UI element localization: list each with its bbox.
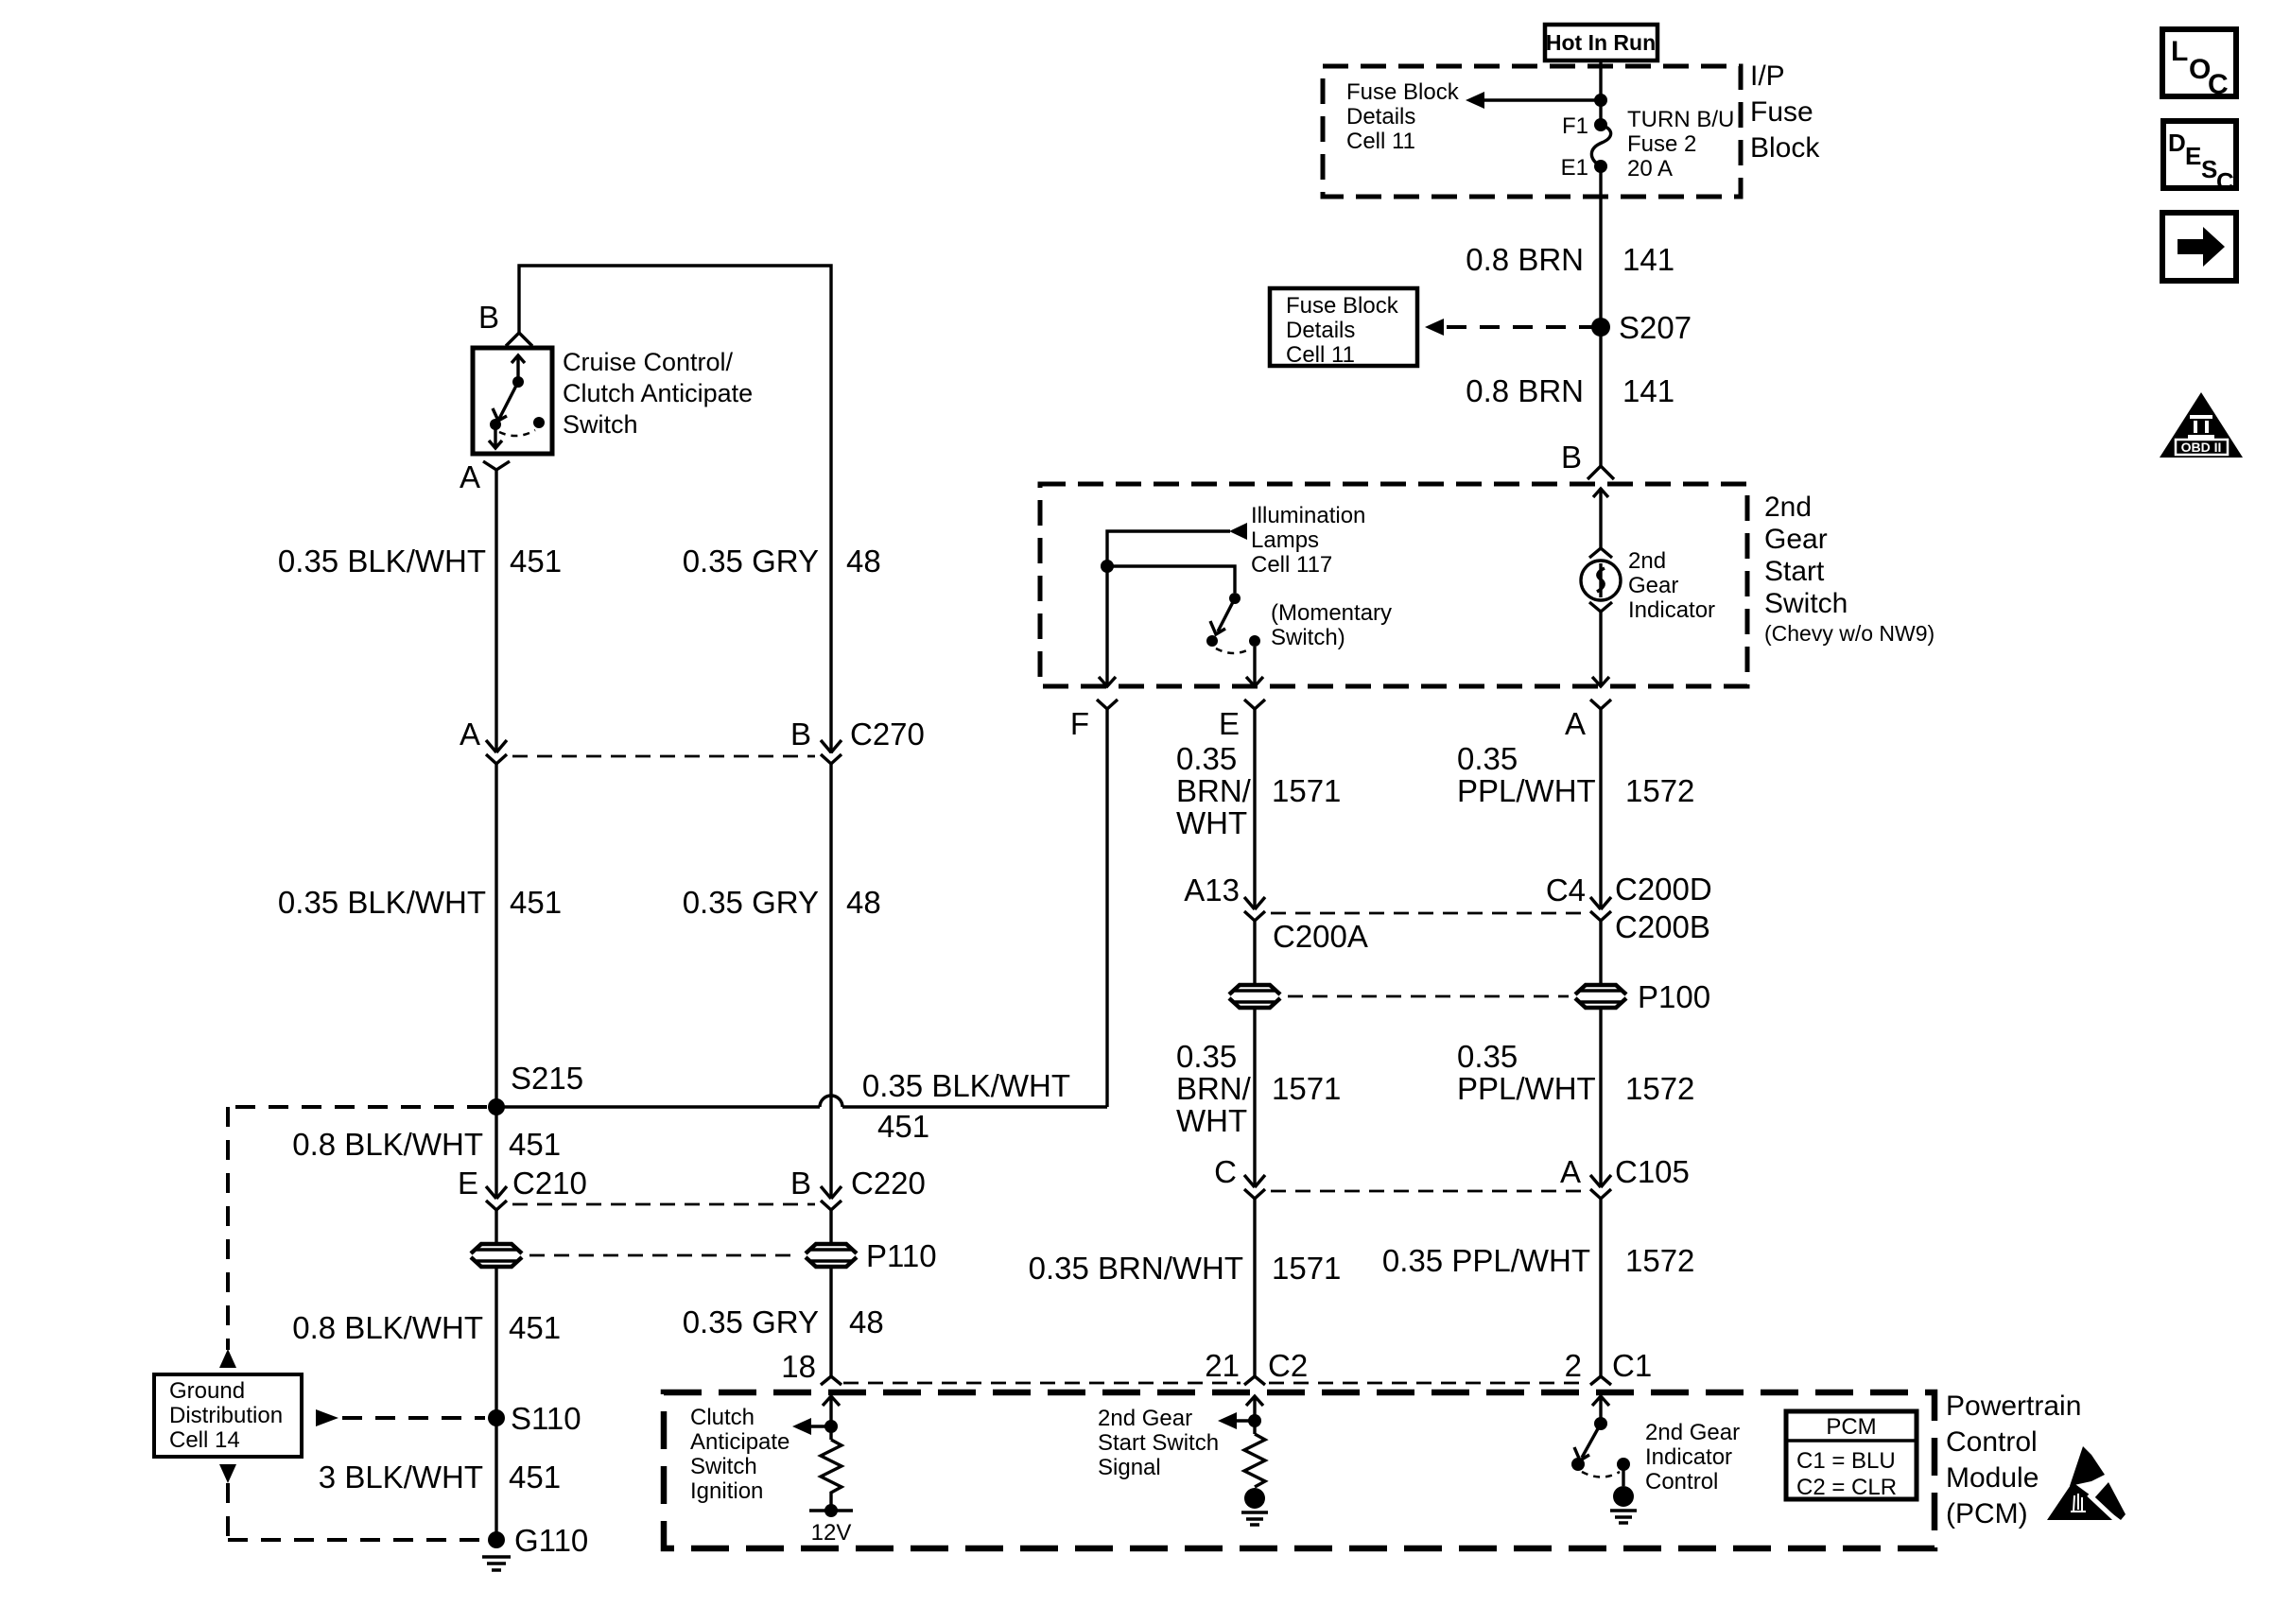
svg-text:P100: P100 [1638,979,1710,1014]
svg-text:S207: S207 [1619,310,1692,345]
svg-text:Distribution: Distribution [169,1403,283,1428]
LOC icon box [2162,29,2236,96]
svg-text:C2: C2 [1268,1348,1308,1383]
svg-text:E: E [1219,706,1240,741]
wire A column to C200 connector [1599,709,1602,909]
svg-text:A: A [1560,1154,1581,1189]
pin 2 switch travel arc [1582,1472,1620,1477]
momentary switch feed wire [1107,566,1235,593]
svg-text:Fuse Block: Fuse Block [1286,293,1399,319]
I/P fuse block dashed box [1323,66,1741,197]
connector pin 21 (chevron) [1244,1376,1265,1385]
illumination junction dot [1101,560,1114,573]
connector C200A left half (arrow + chevron) [1244,897,1265,921]
svg-text:C200A: C200A [1273,919,1368,954]
wire gray column C220 to P110 [829,1210,832,1244]
svg-text:2nd: 2nd [1764,492,1812,523]
svg-text:Block: Block [1750,132,1820,164]
ESD symbol lower triangle [2047,1482,2112,1520]
svg-text:0.35: 0.35 [1457,1039,1518,1074]
OBD II roman numeral [2188,417,2214,437]
wire E column P100 to C105 [1253,1008,1256,1187]
2nd gear start switch signal arrowhead [1218,1412,1237,1429]
ground G110 symbol bars [482,1557,511,1570]
illumination arrowhead [1229,523,1247,540]
svg-text:48: 48 [849,1304,884,1339]
pin 21 ground bars [1241,1512,1268,1525]
svg-text:2nd Gear: 2nd Gear [1645,1420,1740,1445]
momentary switch upper dot [1229,593,1241,604]
pin 2 switch right dot [1617,1458,1630,1471]
connector C200 right half (arrow + chevron) [1590,897,1611,921]
svg-text:Control: Control [1946,1426,2038,1458]
svg-text:F: F [1070,706,1089,741]
wire left column A down to C270 [495,470,497,752]
svg-text:Fuse Block: Fuse Block [1346,79,1460,105]
pin 21 internal arrow up [1246,1396,1263,1434]
ESD symbol cone [2070,1446,2105,1486]
svg-text:OBD II: OBD II [2181,440,2222,455]
wire gray column below C270 to C220 [829,764,832,1199]
arrow icon box [2162,213,2236,281]
svg-text:Hot In Run: Hot In Run [1546,30,1656,55]
svg-text:12V: 12V [811,1520,852,1546]
grommet P100 dashed line [1288,995,1569,998]
cruise control switch box [473,348,552,454]
svg-text:0.8 BRN: 0.8 BRN [1466,373,1584,408]
svg-text:C1 = BLU: C1 = BLU [1796,1448,1896,1474]
svg-text:Switch: Switch [563,410,638,439]
svg-text:(Chevy w/o NW9): (Chevy w/o NW9) [1764,621,1935,646]
svg-text:(PCM): (PCM) [1946,1498,2028,1529]
svg-text:C1: C1 [1612,1348,1652,1383]
switch wire down to A with arrowhead [489,424,502,448]
arrowhead to fuse block details (top) [1466,92,1484,109]
fuse feed junction dot [1594,94,1607,107]
dashed line from arrow to S110 [342,1416,485,1420]
svg-text:WHT: WHT [1176,1103,1247,1138]
2nd gear start switch dashed box [1040,484,1747,686]
svg-text:Lamps: Lamps [1251,527,1319,553]
connector A below box (chevron) [1590,700,1611,709]
DESC icon box [2163,121,2236,188]
svg-text:D: D [2168,129,2186,157]
svg-text:0.35 BLK/WHT: 0.35 BLK/WHT [278,885,486,920]
pin 2 ground bars [1610,1511,1637,1523]
svg-text:WHT: WHT [1176,805,1247,840]
wire E column to C200 connector [1253,709,1256,909]
svg-text:Start Switch: Start Switch [1098,1430,1219,1456]
pin 2 switch left dot [1571,1458,1585,1471]
momentary switch lower right dot [1249,635,1260,647]
svg-text:S110: S110 [511,1401,581,1436]
ESD symbol white slash [2089,1494,2119,1523]
svg-text:0.8 BLK/WHT: 0.8 BLK/WHT [292,1310,483,1345]
svg-text:C220: C220 [851,1166,926,1201]
svg-text:141: 141 [1622,373,1674,408]
svg-text:C: C [1214,1154,1237,1189]
svg-text:0.35: 0.35 [1176,1039,1237,1074]
connector C220 right half (arrow + chevron) [821,1186,842,1210]
switch contact dot lower left [490,419,501,430]
12V supply dot [824,1504,838,1517]
ground distribution box [154,1374,302,1457]
svg-text:A: A [1565,706,1586,741]
wire F column up from S215 wire to illumination corner [1105,709,1108,1107]
svg-text:BRN/: BRN/ [1176,1071,1252,1106]
pin 2 ground ball [1613,1486,1634,1507]
fuse element squiggle [1591,125,1610,166]
pin 18 internal arrow up [823,1396,840,1440]
svg-text:0.35 GRY: 0.35 GRY [683,885,819,920]
dashed line S207 to details box [1447,325,1592,329]
svg-text:451: 451 [510,885,562,920]
svg-text:0.35 BRN/WHT: 0.35 BRN/WHT [1029,1251,1243,1286]
svg-text:C200D: C200D [1615,872,1712,907]
svg-text:1572: 1572 [1625,1243,1694,1278]
svg-text:0.35 PPL/WHT: 0.35 PPL/WHT [1382,1243,1590,1278]
svg-text:Start: Start [1764,556,1825,587]
ESD symbol hand marks [2071,1494,2086,1512]
svg-text:E: E [458,1166,478,1201]
svg-text:A: A [460,459,480,494]
connector C210 left half (arrow + chevron) [486,1186,507,1210]
svg-text:C4: C4 [1546,872,1586,907]
wire F inside box down with arrowhead [1099,566,1116,686]
svg-text:18: 18 [781,1349,816,1384]
connector E below box (chevron) [1244,700,1265,709]
momentary switch lower left dot [1206,635,1218,647]
connector C210-C220 dashed line [512,1203,815,1206]
wire fuse to S207 [1599,166,1602,327]
pin 2 internal arrow up [1592,1396,1609,1424]
svg-text:Indicator: Indicator [1628,597,1715,623]
ground distribution arrow down [219,1464,236,1483]
grommet P100 right [1575,985,1626,1008]
svg-text:BRN/: BRN/ [1176,773,1252,808]
wire hop arc at gray column [820,1096,842,1107]
svg-text:Anticipate: Anticipate [690,1429,789,1455]
switch arrow up to B inside box [512,355,525,380]
svg-text:G110: G110 [514,1523,588,1558]
momentary switch lever with arrowhead [1210,598,1235,634]
arrow from ground box to S110 [316,1409,338,1426]
splice S110 dot [488,1409,505,1426]
svg-text:Control: Control [1645,1469,1718,1494]
svg-text:Fuse 2: Fuse 2 [1627,131,1696,157]
svg-text:Fuse: Fuse [1750,96,1813,128]
svg-text:1572: 1572 [1625,773,1694,808]
svg-text:P110: P110 [866,1238,937,1273]
svg-text:1572: 1572 [1625,1071,1694,1106]
svg-text:B: B [478,300,499,335]
svg-text:E: E [2185,142,2201,170]
wire S207 down to B pin [1599,327,1602,466]
svg-text:Details: Details [1286,318,1355,343]
svg-text:C210: C210 [512,1166,587,1201]
svg-text:C: C [2216,167,2234,196]
svg-text:C200B: C200B [1615,909,1710,944]
connector C105 left half (arrow + chevron) [1244,1175,1265,1199]
svg-text:0.35 GRY: 0.35 GRY [683,1304,819,1339]
svg-text:0.35: 0.35 [1176,741,1237,776]
svg-text:Module: Module [1946,1462,2039,1494]
svg-text:Signal: Signal [1098,1455,1161,1480]
svg-text:B: B [790,1166,811,1201]
pin 2 switch pivot dot [1594,1417,1607,1430]
connector pin 18 (chevron) [821,1376,842,1385]
svg-text:Cell 11: Cell 11 [1346,129,1415,154]
powertrain control module dashed box [664,1392,1935,1548]
svg-text:Cruise Control/: Cruise Control/ [563,348,734,376]
svg-text:Illumination: Illumination [1251,503,1365,528]
2nd gear indicator lamp circle [1581,561,1621,600]
OBD II triangle [2160,392,2243,458]
ground distribution dashed rail vertical lower [226,1483,230,1540]
wire E column C105 to pin 21 [1253,1199,1256,1376]
connector C105 right half (arrow + chevron) [1590,1175,1611,1199]
svg-text:L: L [2171,36,2188,67]
svg-text:451: 451 [877,1109,929,1144]
svg-text:PPL/WHT: PPL/WHT [1457,1071,1596,1106]
clutch anticipate arrowhead [792,1418,811,1435]
svg-text:Gear: Gear [1628,573,1678,598]
svg-text:C270: C270 [850,717,925,752]
pin 2 switch lever with arrowhead [1574,1424,1601,1460]
fuse E1 terminal dot [1594,160,1607,173]
connector C270 dashed line [512,755,815,758]
svg-text:Switch: Switch [1764,588,1848,619]
grommet P110 right [806,1244,857,1267]
svg-text:B: B [790,717,811,752]
svg-text:0.8 BLK/WHT: 0.8 BLK/WHT [292,1127,483,1162]
svg-text:PCM: PCM [1826,1414,1876,1440]
OBD II label box [2176,440,2228,455]
grommet P110 dashed line [529,1254,799,1257]
svg-text:Switch: Switch [690,1454,757,1479]
switch lever with arrowhead [493,382,518,421]
svg-text:451: 451 [509,1310,561,1345]
wire left column C210 to P110 grommet [495,1210,497,1244]
svg-text:1571: 1571 [1272,1071,1341,1106]
svg-text:1571: 1571 [1272,773,1341,808]
wire loop from cruise switch B up over to gray column [519,266,831,753]
svg-text:C: C [2208,69,2229,100]
hot in run box [1545,25,1657,60]
svg-text:Ignition: Ignition [690,1478,763,1504]
grommet P110 left [471,1244,522,1267]
connector F below box (chevron) [1097,700,1118,709]
wire gray column P110 down to pin 18 [829,1267,832,1376]
svg-text:3 BLK/WHT: 3 BLK/WHT [319,1460,483,1494]
connector C270 right half (arrow + chevron) [821,740,842,764]
svg-text:0.35: 0.35 [1457,741,1518,776]
svg-text:S: S [2201,155,2217,183]
svg-text:C105: C105 [1615,1154,1690,1189]
svg-text:PPL/WHT: PPL/WHT [1457,773,1596,808]
svg-text:I/P: I/P [1750,60,1785,92]
arrowhead from S207 to details box [1425,319,1444,336]
arrow icon glyph [2178,227,2225,267]
momentary switch travel arc [1216,648,1251,653]
svg-text:2nd: 2nd [1628,548,1666,574]
splice S215 dot [488,1098,505,1115]
indicator upper chevron [1589,548,1612,558]
svg-text:2: 2 [1565,1348,1582,1383]
connector pin 2 (chevron) [1590,1376,1611,1385]
svg-text:(Momentary: (Momentary [1271,600,1392,626]
svg-text:Details: Details [1346,104,1415,130]
svg-text:Cell 117: Cell 117 [1251,552,1332,578]
switch contact dot lower right [533,417,545,428]
svg-text:451: 451 [510,544,562,579]
wire left column below C270 to C210 [495,764,497,1199]
ESD symbol right wedge [2093,1482,2126,1520]
splice S207 dot [1591,318,1610,337]
svg-text:C2 = CLR: C2 = CLR [1796,1475,1897,1500]
grommet P100 left [1229,985,1280,1008]
connector C105 dashed line [1271,1190,1585,1193]
svg-text:Ground: Ground [169,1378,245,1404]
svg-text:TURN B/U: TURN B/U [1627,107,1734,132]
svg-text:Clutch: Clutch [690,1405,755,1430]
svg-text:451: 451 [509,1460,561,1494]
wire S215 horizontal to F column with hop over gray column [496,1105,1107,1108]
ground distribution arrow up [219,1349,236,1368]
wire pin 2 switch to ground ball [1622,1469,1624,1486]
svg-text:S215: S215 [511,1061,583,1096]
svg-text:F1: F1 [1562,113,1588,139]
ground G110 dot [488,1531,505,1548]
wire A column P100 to C105 [1599,1008,1602,1187]
svg-text:48: 48 [846,885,881,920]
connector A below cruise switch (chevron) [483,461,510,470]
pin 18 junction dot [824,1420,838,1433]
12V supply bar [809,1509,853,1512]
svg-text:Cell 11: Cell 11 [1286,342,1355,368]
resistor pin 18 [821,1440,842,1509]
fuse F1 terminal dot [1594,118,1607,131]
svg-text:0.35 BLK/WHT: 0.35 BLK/WHT [862,1068,1070,1103]
PCM legend box outer [1786,1411,1917,1499]
fuse block details box (solid) [1270,288,1417,366]
svg-text:0.8 BRN: 0.8 BRN [1466,242,1584,277]
svg-text:Indicator: Indicator [1645,1444,1732,1470]
connector B at cruise switch (chevron) [506,333,532,346]
svg-text:E1: E1 [1561,155,1588,181]
arrow line to fuse block details (top) [1483,98,1601,101]
switch travel dashed arc [499,430,535,436]
svg-text:2nd Gear: 2nd Gear [1098,1406,1192,1431]
ground distribution dashed rail vertical upper [226,1107,230,1350]
indicator feed arrow inside box top [1593,488,1608,548]
svg-text:Switch): Switch) [1271,625,1345,650]
wire momentary switch to box bottom with arrowhead [1246,647,1263,686]
connector C200 dashed line [1271,912,1585,915]
svg-text:1571: 1571 [1272,1251,1341,1286]
svg-text:0.35 GRY: 0.35 GRY [683,544,819,579]
switch pivot dot upper [512,376,524,388]
wire A column C105 to pin 2 [1599,1199,1602,1376]
svg-text:A: A [460,717,480,752]
svg-text:Clutch Anticipate: Clutch Anticipate [563,379,753,407]
svg-text:Cell 14: Cell 14 [169,1427,240,1453]
wire E column C200 to P100 grommet [1253,921,1256,985]
wire A column C200 to P100 grommet [1599,921,1602,985]
pin 21 ground ball [1244,1488,1265,1509]
svg-text:20 A: 20 A [1627,156,1673,181]
svg-text:B: B [1561,440,1582,475]
svg-text:Gear: Gear [1764,524,1828,555]
connector C270 left half (arrow + chevron) [486,740,507,764]
indicator lamp filament [1599,563,1602,597]
svg-text:A13: A13 [1184,872,1240,907]
svg-text:451: 451 [509,1127,561,1162]
ground distribution dashed rail top horizontal [228,1105,487,1109]
clutch anticipate arrow line [811,1425,831,1427]
svg-text:48: 48 [846,544,881,579]
wire indicator down to box bottom with arrowhead [1592,612,1609,686]
resistor pin 21 [1244,1434,1265,1487]
wire from hot in run into fuse block [1599,60,1602,125]
ground distribution dashed rail bottom horizontal [228,1538,484,1542]
2nd gear start switch signal arrow line [1237,1419,1255,1422]
indicator lower chevron [1589,602,1612,612]
svg-text:141: 141 [1622,242,1674,277]
pin 21 junction dot [1248,1414,1261,1427]
PCM legend divider [1786,1439,1917,1442]
illumination corner wire with arrow to lamps [1107,531,1230,566]
connector B at 2nd gear box (chevron) [1588,466,1614,479]
wire left column P110 down to G110 [495,1267,497,1540]
svg-text:21: 21 [1205,1348,1240,1383]
pin row thin dashed line [843,1382,1587,1385]
svg-text:Powertrain: Powertrain [1946,1391,2081,1422]
svg-text:0.35 BLK/WHT: 0.35 BLK/WHT [278,544,486,579]
